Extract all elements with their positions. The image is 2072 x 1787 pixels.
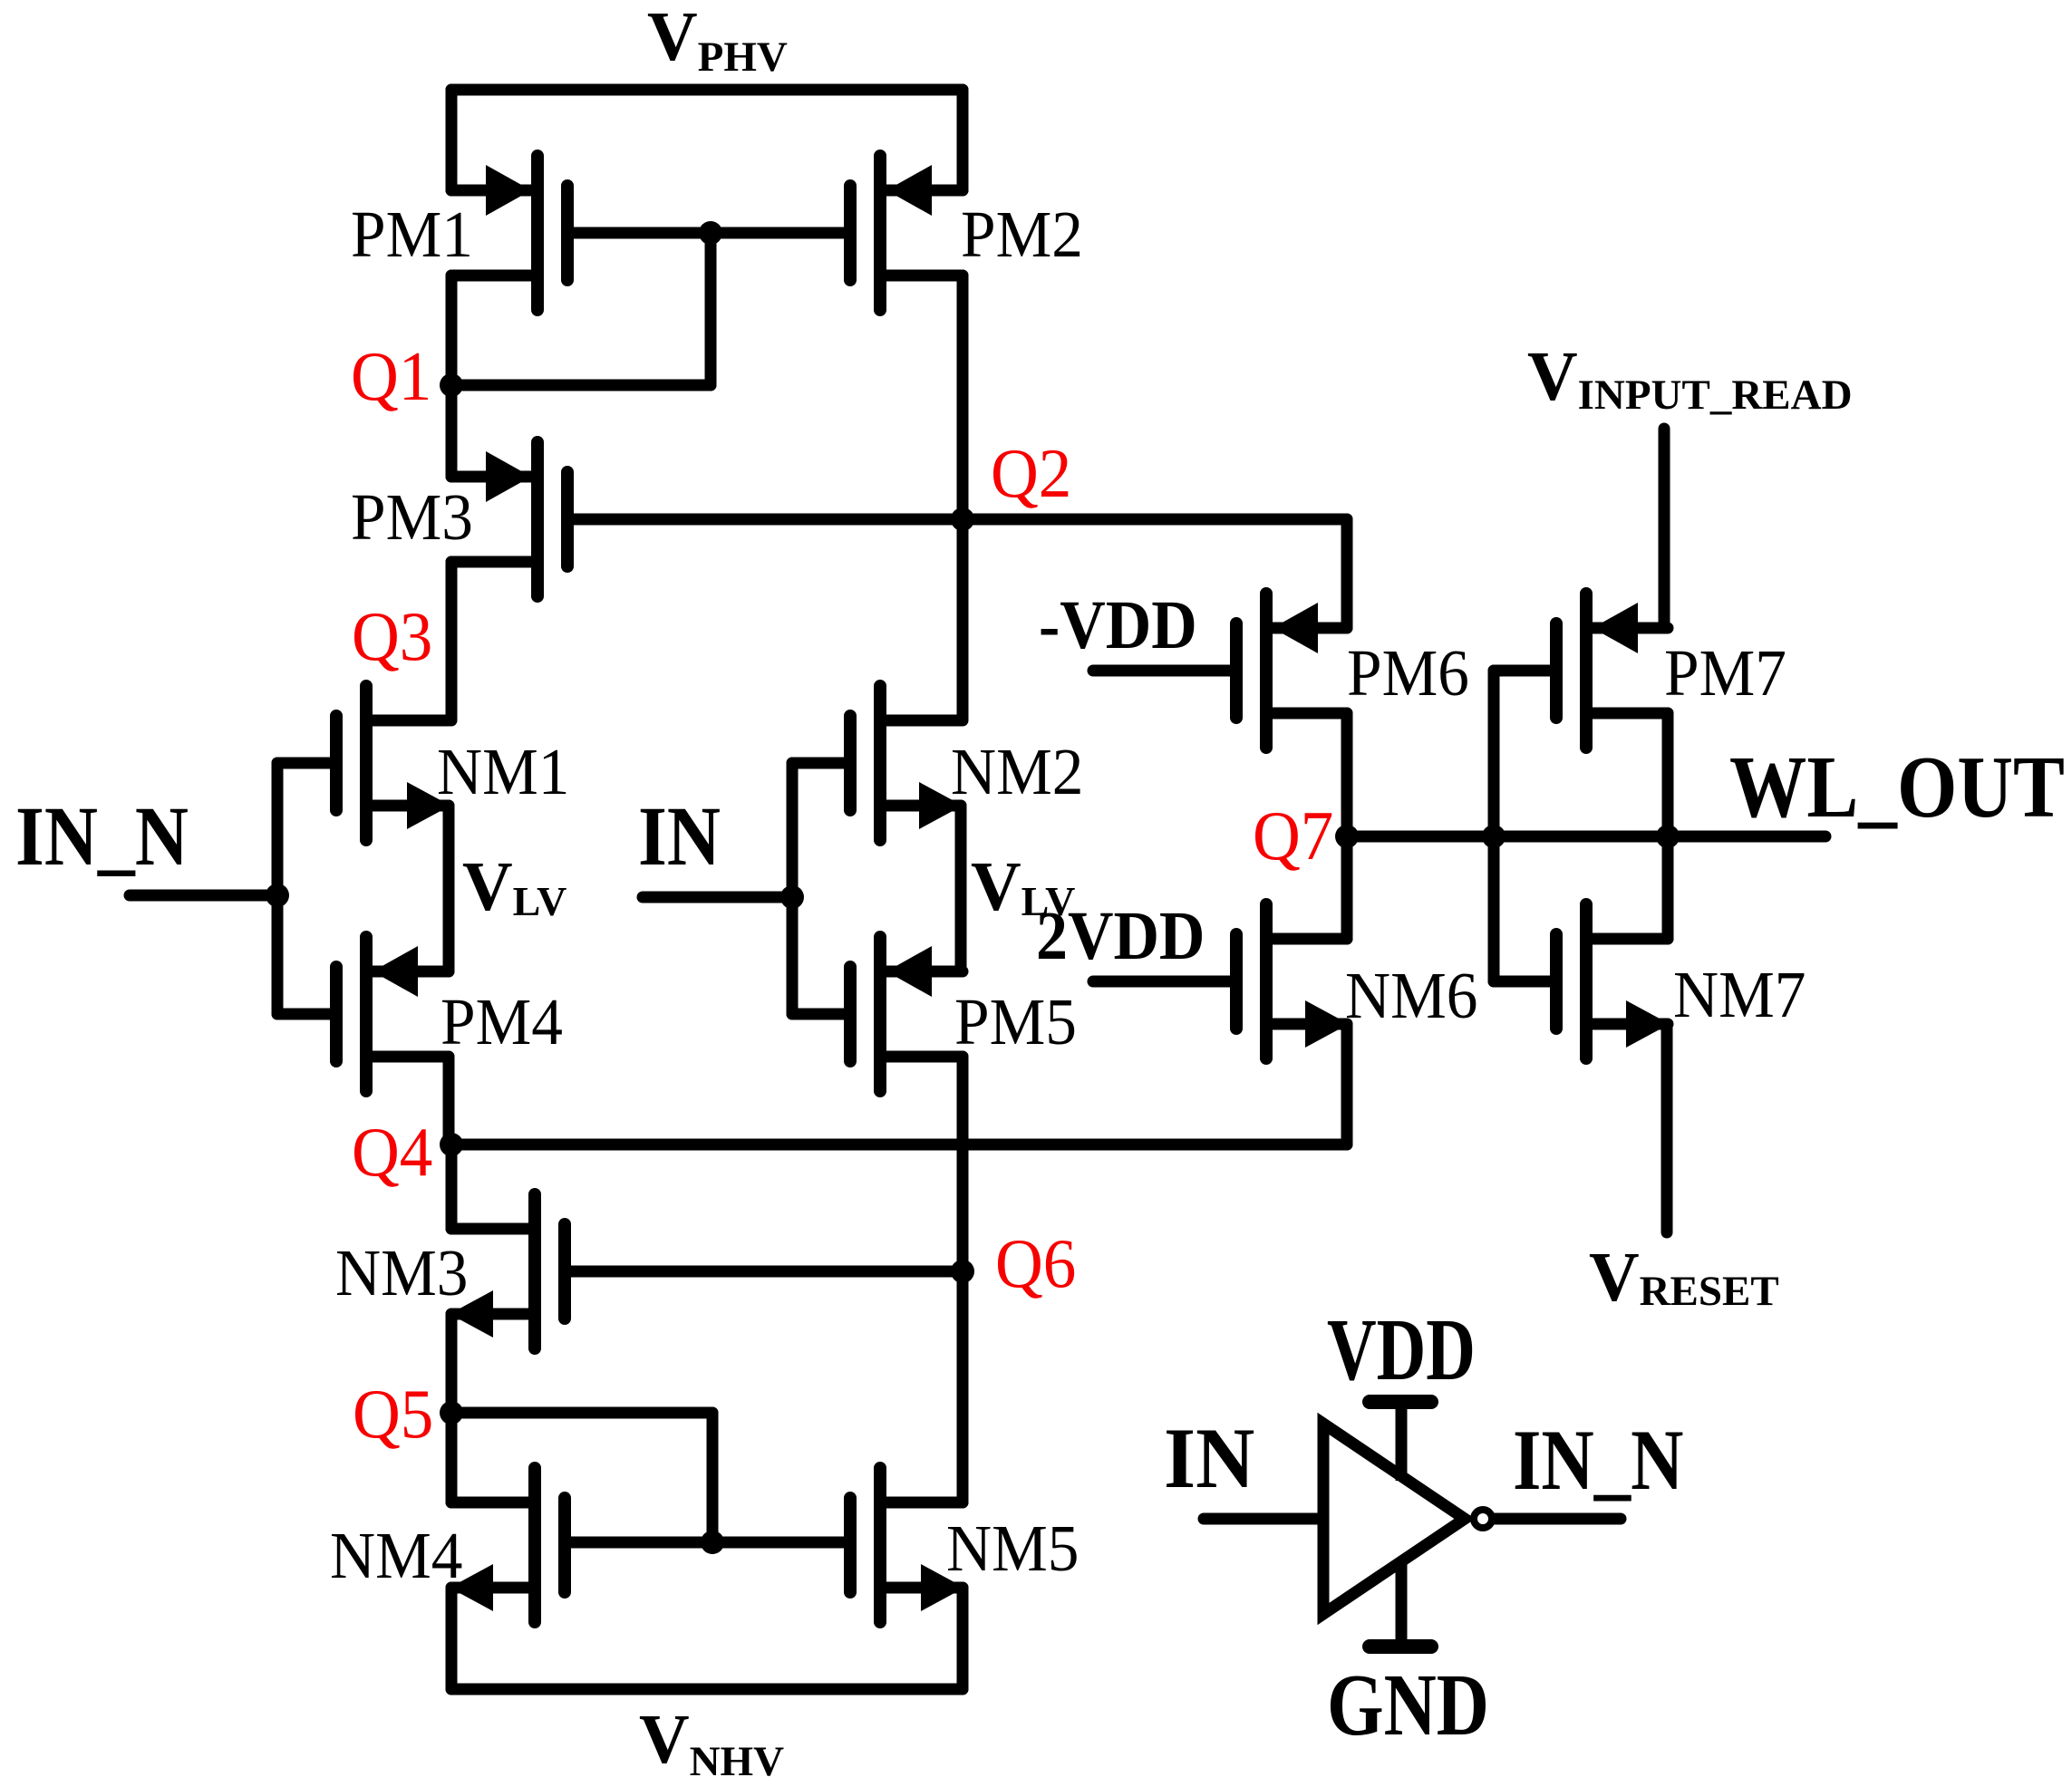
- wire Q5 to NM4 drain: [446, 1413, 458, 1502]
- svg-text:Q3: Q3: [352, 598, 432, 675]
- wire NM1-PM4 gate bus: [272, 763, 284, 1014]
- svg-text:Q6: Q6: [995, 1225, 1076, 1302]
- wire NM3 source to Q5: [446, 1314, 458, 1413]
- svg-text:NM1: NM1: [437, 736, 569, 808]
- transistor PM7: [1494, 594, 1668, 748]
- wire NM2-PM5 gate bus: [787, 763, 799, 1014]
- transistor NM1: [277, 686, 450, 840]
- wire PM7-NM7 gate bus: [1488, 671, 1500, 981]
- wire V_PHV rail to PM2 source: [957, 90, 969, 190]
- svg-text:NM7: NM7: [1673, 959, 1806, 1031]
- svg-text:GND: GND: [1327, 1657, 1489, 1754]
- node Q2: [951, 507, 974, 531]
- inverter VDD tap: [1370, 1402, 1431, 1481]
- transistor NM4: [450, 1468, 565, 1622]
- transistor PM2: [711, 156, 963, 310]
- wire NM7 drain to WL_OUT: [1662, 836, 1674, 939]
- wire NM6 source to Q4 line: [1341, 1024, 1353, 1145]
- transistor PM6: [1093, 594, 1347, 748]
- transistor NM5: [850, 1468, 964, 1622]
- inverter output bubble: [1474, 1510, 1492, 1528]
- wire Q5 line: [451, 1407, 712, 1419]
- svg-text:NM5: NM5: [946, 1512, 1079, 1585]
- node Q1: [440, 373, 463, 397]
- wire IN_N input: [130, 890, 277, 902]
- wire Q7 line: [1347, 831, 1668, 843]
- node Q7: [1335, 825, 1359, 848]
- svg-text:PM6: PM6: [1347, 637, 1469, 710]
- svg-text:Q5: Q5: [353, 1376, 433, 1453]
- svg-text:VNHV: VNHV: [639, 1700, 784, 1785]
- svg-text:VRESET: VRESET: [1589, 1238, 1779, 1316]
- node NM4-NM5 gate junction: [701, 1531, 724, 1554]
- wire PM1 drain to Q1: [446, 275, 458, 385]
- svg-text:PM1: PM1: [351, 198, 473, 271]
- wire Q4 to NM3 drain: [446, 1145, 458, 1229]
- node Q6: [951, 1260, 974, 1283]
- node IN junction: [780, 885, 804, 909]
- inverter GND tap: [1370, 1564, 1431, 1647]
- svg-text:IN_N: IN_N: [1513, 1413, 1683, 1509]
- svg-text:NM2: NM2: [951, 736, 1083, 808]
- wire PM6 drain to Q7: [1341, 713, 1353, 836]
- wire PM1-PM2 gate riser: [705, 233, 717, 385]
- svg-text:Q1: Q1: [351, 338, 431, 415]
- node Q5: [440, 1401, 463, 1425]
- svg-text:PM3: PM3: [351, 481, 473, 554]
- svg-text:IN: IN: [1164, 1411, 1254, 1507]
- node Q4: [440, 1133, 463, 1156]
- node WL_OUT junction: [1656, 825, 1680, 848]
- svg-text:VPHV: VPHV: [647, 0, 788, 81]
- svg-text:Q7: Q7: [1253, 797, 1333, 874]
- svg-text:VDD: VDD: [1327, 1300, 1476, 1398]
- wire V_PHV rail to PM1 source: [446, 90, 458, 190]
- inverter input wire: [1204, 1513, 1322, 1525]
- wire NM3 gate to Q6: [570, 1266, 963, 1278]
- transistor NM2: [792, 686, 963, 840]
- node IN_N junction: [266, 884, 289, 907]
- wire PM5 drain through Q4 to NM5 drain: [957, 1057, 969, 1502]
- svg-text:NM4: NM4: [330, 1520, 462, 1592]
- wire NM4-NM5 gate line: [571, 1537, 844, 1549]
- svg-text:IN_N: IN_N: [15, 789, 189, 883]
- wire WL_OUT lead: [1668, 831, 1825, 843]
- transistor NM7: [1494, 904, 1670, 1058]
- wire PM3 drain to NM1 drain: [446, 562, 458, 720]
- svg-text:PM7: PM7: [1664, 637, 1786, 710]
- svg-text:-VDD: -VDD: [1039, 586, 1197, 662]
- svg-text:VINPUT_READ: VINPUT_READ: [1527, 337, 1853, 419]
- svg-text:WL_OUT: WL_OUT: [1729, 739, 2065, 836]
- wire V_PHV rail: [451, 84, 963, 96]
- wire PM4 drain to Q4: [443, 1057, 455, 1145]
- wire NM5 source drop: [957, 1588, 969, 1689]
- wire NM7 source to V_RESET: [1661, 1024, 1673, 1232]
- transistor NM6: [1093, 904, 1349, 1058]
- wire V_NHV rail: [451, 1684, 963, 1695]
- wire Q5 riser to gate line: [707, 1413, 719, 1542]
- transistor PM1: [451, 156, 711, 310]
- svg-text:Q4: Q4: [352, 1114, 432, 1191]
- svg-text:IN: IN: [638, 789, 721, 883]
- transistor PM5: [792, 937, 963, 1091]
- wire V_LV left: [443, 806, 455, 971]
- wire V_INPUT_READ stem: [1659, 429, 1670, 628]
- wire IN input: [643, 892, 792, 903]
- svg-text:PM2: PM2: [961, 198, 1083, 271]
- wire NM4 source drop: [446, 1588, 458, 1689]
- inverter output wire: [1495, 1513, 1621, 1525]
- wire Q2 to PM6 source: [963, 519, 1347, 628]
- wire Q4 line: [451, 1139, 1347, 1151]
- svg-text:PM4: PM4: [441, 986, 563, 1058]
- svg-text:NM3: NM3: [335, 1237, 468, 1309]
- wire Q1 to PM3 source: [446, 385, 458, 477]
- svg-text:PM5: PM5: [954, 986, 1077, 1058]
- transistor NM3: [450, 1194, 963, 1348]
- inverter U1 triangle: [1323, 1424, 1465, 1614]
- wire Q1 to gate riser: [451, 380, 711, 391]
- node PM1-PM2 gate junction: [699, 221, 722, 245]
- transistor PM3: [451, 442, 963, 596]
- transistor PM4: [277, 937, 449, 1091]
- wire PM2 drain to Q2 to NM2 drain: [957, 275, 969, 720]
- wire NM6 drain to Q7: [1341, 836, 1353, 939]
- wire PM7 drain to WL_OUT: [1662, 713, 1674, 836]
- svg-text:VLV: VLV: [462, 847, 566, 925]
- svg-text:NM6: NM6: [1345, 960, 1477, 1032]
- svg-text:Q2: Q2: [991, 435, 1071, 512]
- node PM7-NM7 gate junction: [1482, 825, 1506, 848]
- svg-text:2VDD: 2VDD: [1036, 897, 1205, 973]
- wire V_LV right: [955, 806, 967, 971]
